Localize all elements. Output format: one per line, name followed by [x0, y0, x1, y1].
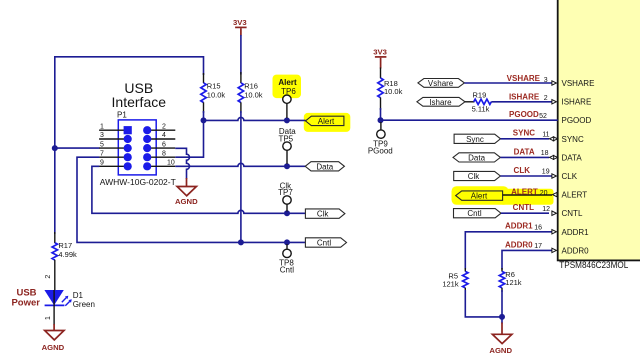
testpoint TP7 Clk [278, 181, 293, 211]
wire LED cathode to AGND [53, 305, 55, 325]
svg-text:6: 6 [162, 141, 166, 148]
wire pin10 Data net horizontal with hop over R16 column [175, 163, 305, 166]
IC pin DATA name and bidir arrow [549, 153, 582, 162]
net label ADDR1 and pin 16 [505, 222, 542, 232]
node junction R6/AGND [499, 314, 505, 320]
svg-text:18: 18 [541, 150, 549, 157]
svg-text:Clk: Clk [468, 172, 481, 181]
wire R19 to IC pin 2 [491, 101, 551, 103]
flag Ishare [417, 97, 465, 106]
ground AGND (below R5 R6) [489, 323, 512, 355]
svg-text:AGND: AGND [175, 197, 198, 206]
IC pin SYNC name and bidir arrow [549, 135, 584, 144]
svg-text:3V3: 3V3 [233, 18, 247, 27]
svg-text:PGood: PGood [368, 147, 393, 156]
svg-text:10.0k: 10.0k [244, 91, 263, 100]
P1 pin 10 stub [151, 160, 175, 167]
svg-text:Cntl: Cntl [280, 266, 294, 275]
node junction TP7/Clk [284, 210, 290, 216]
svg-text:2: 2 [45, 275, 52, 279]
flag Sync [454, 134, 500, 144]
svg-text:Green: Green [73, 300, 95, 309]
testpoint TP5 Data [278, 127, 296, 164]
svg-text:AGND: AGND [42, 343, 65, 352]
svg-text:10.0k: 10.0k [384, 87, 403, 96]
power symbol 3V3 (left) [233, 18, 247, 35]
P1 pin 9 stub [99, 160, 124, 167]
svg-text:ALERT: ALERT [562, 191, 588, 200]
P1 pin 4 stub [151, 132, 175, 139]
node junction rail/pin5 [52, 145, 58, 151]
node junction R16/Cntl [238, 239, 244, 245]
P1 pin 3 stub [99, 132, 124, 139]
svg-text:20: 20 [540, 190, 548, 197]
svg-text:TPSM846C23MOL: TPSM846C23MOL [559, 260, 628, 270]
svg-text:10: 10 [167, 160, 175, 167]
node junction TP8/Cntl [284, 239, 290, 245]
power symbol 3V3 (right) [373, 47, 387, 68]
svg-text:TP6: TP6 [281, 87, 296, 96]
svg-text:ADDR1: ADDR1 [562, 228, 590, 237]
IC pin PGOOD name [562, 116, 592, 125]
net label ALERT and pin 20 [511, 187, 547, 197]
flag Clk (left) [305, 209, 345, 219]
svg-text:4: 4 [162, 132, 166, 139]
svg-text:AWHW-10G-0202-T: AWHW-10G-0202-T [100, 178, 176, 187]
flag Clk (right) [454, 171, 501, 181]
flag Data (left) [305, 162, 344, 172]
wire R15 bottom to Alert junction [203, 111, 205, 120]
wire 3V3 to R16 [240, 35, 242, 75]
node junction TP6/Alert [284, 117, 290, 123]
svg-text:DATA: DATA [562, 153, 583, 162]
svg-text:Cntl: Cntl [467, 209, 481, 218]
svg-text:Data: Data [316, 162, 333, 171]
flag Alert (right, yellow) [456, 191, 503, 201]
svg-text:8: 8 [162, 150, 166, 157]
P1 pin 5 stub [99, 141, 124, 148]
connector P1 outline [100, 111, 176, 187]
svg-text:10.0k: 10.0k [207, 91, 226, 100]
resistor R15 [201, 56, 226, 113]
resistor R6 [499, 268, 522, 292]
svg-text:ADDR1: ADDR1 [505, 222, 533, 231]
IC U-TPSM846C23MOL body [558, 0, 640, 270]
svg-text:D1: D1 [73, 291, 84, 300]
net label VSHARE and pin 3 [507, 74, 548, 84]
wire R5 and R6 bottoms joined [465, 290, 502, 324]
svg-text:Ishare: Ishare [429, 98, 452, 107]
net label CLK and pin 19 [514, 166, 550, 176]
svg-text:2: 2 [162, 123, 166, 130]
svg-text:19: 19 [542, 169, 550, 176]
IC pin ALERT name and output arrow [553, 191, 588, 200]
svg-text:Interface: Interface [112, 94, 167, 110]
svg-text:ADDR0: ADDR0 [505, 240, 533, 249]
node junction R15/pin8/Alert [201, 117, 207, 123]
highlight marker over Alert TP6 label [273, 75, 302, 99]
svg-text:P1: P1 [117, 111, 127, 120]
flag Cntl (left) [305, 238, 346, 248]
svg-text:9: 9 [100, 160, 104, 167]
wire VBUS rail top (pin5 rail to R15 top) [55, 57, 204, 234]
P1 pin 7 stub [99, 150, 124, 157]
svg-text:SYNC: SYNC [562, 135, 584, 144]
svg-text:121k: 121k [442, 279, 459, 288]
svg-text:Clk: Clk [317, 210, 330, 219]
resistor R18 [378, 68, 403, 111]
svg-text:VSHARE: VSHARE [507, 74, 541, 83]
svg-text:CNTL: CNTL [562, 209, 583, 218]
net label DATA and pin 18 [514, 147, 549, 157]
net label CNTL and pin 12 [513, 203, 550, 213]
IC pin CLK name and input arrow [552, 172, 578, 181]
wire R16 bottom down to Cntl junction [240, 111, 242, 242]
LED D1 pin number 1 [45, 316, 52, 320]
wire Vshare to IC pin 3 [464, 82, 551, 84]
svg-text:16: 16 [534, 225, 542, 232]
label USB Interface [112, 80, 167, 110]
svg-text:CLK: CLK [514, 166, 531, 175]
svg-text:R16: R16 [244, 82, 258, 91]
net label PGOOD and pin 52 [509, 110, 547, 120]
P1 pin 8 stub [151, 150, 175, 157]
svg-text:1: 1 [45, 316, 52, 320]
highlight marker around Alert flag left [304, 113, 351, 132]
P1 pin 1 stub [99, 123, 124, 130]
LED D1 [44, 290, 95, 309]
svg-text:3V3: 3V3 [373, 47, 387, 56]
svg-text:Data: Data [468, 153, 485, 162]
node junction TP5/Data [284, 163, 290, 169]
wire Alert net horizontal with hop over R16 column [204, 117, 306, 120]
svg-text:CLK: CLK [562, 172, 578, 181]
svg-text:2: 2 [544, 95, 548, 102]
wire Ishare flag to R19 [465, 101, 475, 103]
svg-text:PGOOD: PGOOD [509, 110, 539, 119]
svg-text:CNTL: CNTL [513, 203, 534, 212]
svg-text:ALERT: ALERT [511, 187, 538, 196]
flag Cntl (right) [454, 209, 502, 219]
svg-text:3: 3 [100, 132, 104, 139]
wire pin8 up to Alert junction [175, 120, 203, 157]
svg-text:Alert: Alert [471, 192, 488, 201]
svg-text:Sync: Sync [466, 135, 484, 144]
flag Data (right) [453, 153, 500, 163]
wire pin6 to AGND with hops over rows 8 and 10 [175, 148, 189, 179]
wire Alert to IC pin 20 [503, 194, 552, 196]
resistor R5 [442, 268, 468, 292]
highlight marker band over ALERT net to IC [452, 186, 554, 205]
P1 pin pads [124, 126, 152, 170]
svg-text:3: 3 [544, 77, 548, 84]
svg-text:52: 52 [539, 113, 547, 120]
wire Sync to IC pin 11 [501, 138, 550, 140]
wire R18 bottom to PGOOD junction [380, 108, 382, 120]
LED D1 pin number 2 [45, 275, 52, 279]
svg-text:Cntl: Cntl [317, 239, 331, 248]
IC pin CNTL name and input arrow [552, 209, 583, 218]
IC pin ADDR1 name and input arrow [552, 228, 589, 237]
wire Cntl to IC pin 12 [501, 212, 549, 214]
svg-text:AGND: AGND [489, 346, 512, 355]
wire pin7 down and Cntl net horizontal [77, 157, 306, 242]
svg-text:121k: 121k [505, 278, 522, 287]
wire ADDR0 from IC pin 17 to R6 [502, 250, 552, 269]
flag Alert (left, yellow) [306, 116, 344, 126]
svg-text:SYNC: SYNC [513, 129, 535, 138]
svg-text:PGOOD: PGOOD [562, 116, 592, 125]
resistor R16 [238, 72, 263, 113]
wire Data to IC pin 18 [500, 156, 549, 158]
svg-text:Alert: Alert [318, 117, 335, 126]
net label SYNC and pin 11 [513, 129, 550, 139]
label USB Power [11, 288, 40, 309]
IC pin VSHARE name and input arrow [552, 79, 595, 88]
svg-text:VSHARE: VSHARE [562, 79, 595, 88]
svg-text:ISHARE: ISHARE [562, 98, 592, 107]
svg-text:12: 12 [542, 206, 550, 213]
resistor R17 [52, 232, 77, 291]
svg-text:17: 17 [534, 243, 542, 250]
svg-text:DATA: DATA [514, 147, 535, 156]
ground AGND (under LED D1) [42, 324, 65, 352]
testpoint TP9 PGood [368, 122, 393, 156]
flag Vshare [418, 79, 465, 88]
net label ISHARE and pin 2 [509, 92, 548, 102]
testpoint TP8 Cntl [279, 244, 294, 275]
svg-text:Vshare: Vshare [428, 79, 454, 88]
wire pin9 down and Clk net horizontal with hop over R16 column [92, 166, 306, 213]
svg-text:R17: R17 [58, 241, 72, 250]
svg-text:ADDR0: ADDR0 [562, 246, 590, 255]
svg-text:1: 1 [100, 123, 104, 130]
resistor R19 [472, 90, 492, 113]
IC pin ISHARE name and input arrow [552, 98, 591, 107]
wire ADDR1 from IC pin 16 to R5 [465, 232, 551, 270]
svg-text:R19: R19 [473, 90, 487, 99]
wire Clk to IC pin 19 [500, 175, 551, 177]
wire pin5 to rail junction [55, 147, 100, 149]
wire PGOOD net to IC pin 52 [381, 119, 558, 121]
svg-text:4.99k: 4.99k [58, 250, 77, 259]
svg-text:Power: Power [11, 298, 40, 309]
svg-text:11: 11 [542, 132, 549, 139]
net label ADDR0 and pin 17 [505, 240, 542, 250]
testpoint TP6 Alert [278, 78, 297, 118]
svg-text:7: 7 [100, 150, 104, 157]
ground AGND (under P1 pin 6) [175, 178, 198, 206]
svg-text:5: 5 [100, 141, 104, 148]
P1 pin 6 stub [151, 141, 175, 148]
node junction R18/TP9/PGOOD [378, 117, 384, 123]
P1 pin 2 stub [151, 123, 175, 130]
svg-text:5.11k: 5.11k [472, 104, 490, 113]
IC pin ADDR0 name and input arrow [552, 246, 589, 255]
svg-text:R15: R15 [207, 82, 221, 91]
svg-text:ISHARE: ISHARE [509, 92, 540, 101]
